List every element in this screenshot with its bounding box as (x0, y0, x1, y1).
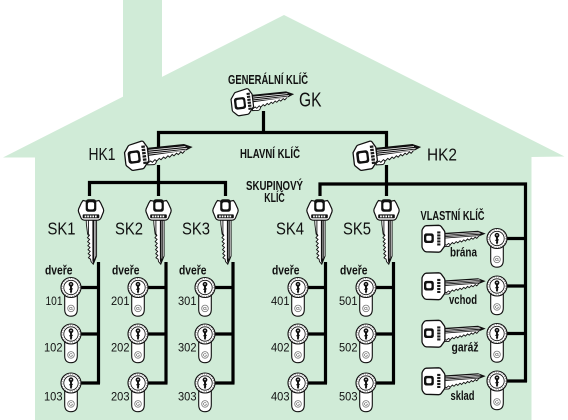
svg-text:501: 501 (339, 294, 358, 308)
chimney (123, 0, 162, 105)
svg-text:301: 301 (178, 294, 197, 308)
cylinder 101 (61, 278, 81, 317)
svg-text:302: 302 (178, 341, 197, 355)
svg-text:SK2: SK2 (115, 219, 143, 239)
key brana (422, 225, 485, 252)
cylinder 503 (356, 373, 376, 412)
svg-text:SK1: SK1 (48, 219, 76, 239)
wire: GK to HK bar with stems (157, 131, 388, 196)
svg-text:dveře: dveře (340, 264, 368, 278)
svg-text:dveře: dveře (272, 264, 300, 278)
cylinder 301 (195, 278, 215, 317)
wire: group 3 stubs (213, 288, 235, 384)
wire: group 1 drop (97, 262, 100, 384)
svg-text:vchod: vchod (449, 293, 477, 307)
key sklad (422, 368, 485, 395)
cylinder brana (487, 229, 507, 268)
svg-text:503: 503 (339, 390, 358, 404)
key GK (230, 88, 293, 116)
svg-text:203: 203 (111, 390, 130, 404)
key HK1 (123, 141, 191, 172)
cylinder 501 (356, 278, 376, 317)
svg-text:GK: GK (299, 90, 322, 112)
wire: group 5 drop (392, 262, 395, 384)
cylinder 202 (128, 324, 148, 363)
wire: left SK branch bar (90, 183, 226, 197)
key garaz (422, 320, 485, 347)
wire: GK stem (262, 111, 265, 134)
svg-text:402: 402 (271, 341, 290, 355)
cylinder vchod (487, 276, 507, 315)
svg-text:dveře: dveře (112, 264, 140, 278)
svg-text:502: 502 (339, 341, 358, 355)
label SKUPINOVY KLIC (246, 178, 303, 205)
svg-text:SK5: SK5 (343, 219, 371, 239)
cylinder 303 (195, 373, 215, 412)
svg-text:garáž: garáž (452, 341, 479, 355)
key SK3 (213, 199, 238, 264)
cylinder 201 (128, 278, 148, 317)
svg-text:VLASTNÍ KLÍČ: VLASTNÍ KLÍČ (421, 208, 485, 223)
cylinder 403 (288, 373, 308, 412)
cylinder 401 (288, 278, 308, 317)
key SK1 (78, 199, 103, 264)
svg-text:401: 401 (271, 294, 290, 308)
svg-text:201: 201 (111, 294, 130, 308)
wire: group 2 stubs (146, 288, 168, 384)
svg-text:SK3: SK3 (182, 219, 210, 239)
cylinder 203 (128, 373, 148, 412)
wire: right column stubs (507, 239, 528, 382)
key HK2 (352, 141, 420, 172)
svg-text:SK4: SK4 (276, 219, 304, 239)
svg-text:303: 303 (178, 390, 197, 404)
cylinder sklad (487, 371, 507, 410)
svg-text:sklad: sklad (451, 389, 475, 403)
svg-text:dveře: dveře (179, 264, 207, 278)
key SK4 (307, 199, 332, 264)
wire: group 5 stubs (374, 288, 395, 384)
svg-text:HK1: HK1 (89, 144, 116, 164)
cylinder garaz (487, 324, 507, 363)
svg-text:brána: brána (450, 246, 478, 260)
cylinder 302 (195, 324, 215, 363)
svg-text:HLAVNÍ KLÍČ: HLAVNÍ KLÍČ (240, 146, 300, 161)
cylinder 502 (356, 324, 376, 363)
wire: group 3 drop (231, 262, 234, 384)
key SK2 (146, 199, 171, 264)
svg-text:403: 403 (271, 390, 290, 404)
svg-text:103: 103 (44, 390, 63, 404)
wire: group 2 drop (164, 262, 167, 384)
svg-text:101: 101 (46, 294, 63, 308)
cylinder 102 (61, 324, 81, 363)
wire: right SK branch bar and right column drop (320, 184, 526, 382)
cylinder 103 (61, 373, 81, 412)
svg-text:GENERÁLNÍ KLÍČ: GENERÁLNÍ KLÍČ (228, 72, 308, 87)
svg-text:dveře: dveře (45, 264, 73, 278)
svg-text:KLÍČ: KLÍČ (264, 190, 285, 205)
key vchod (422, 273, 485, 300)
key SK5 (374, 199, 399, 264)
svg-text:HK2: HK2 (427, 145, 457, 165)
cylinder 402 (288, 324, 308, 363)
wire: group 4 stubs (306, 288, 327, 384)
wire: group 4 drop (324, 262, 327, 384)
wire: group 1 stubs (79, 288, 100, 384)
svg-text:202: 202 (111, 341, 130, 355)
svg-text:102: 102 (44, 341, 63, 355)
